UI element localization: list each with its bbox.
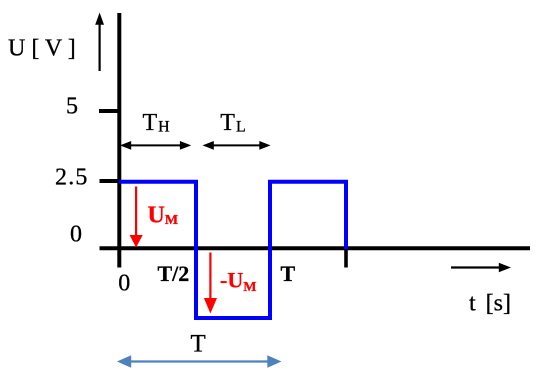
svg-text:U [ V ]: U [ V ] [8,36,76,62]
svg-text:0: 0 [70,222,82,248]
svg-text:T/2: T/2 [158,261,190,286]
svg-text:0: 0 [118,271,130,297]
svg-text:2.5: 2.5 [55,165,89,191]
svg-text:5: 5 [66,94,78,120]
svg-text:TH: TH [143,110,171,136]
svg-text:-UM: -UM [220,267,256,295]
svg-text:TL: TL [220,110,245,136]
svg-text:t [s]: t [s] [469,291,511,317]
svg-text:T: T [281,261,296,286]
svg-text:UM: UM [148,203,179,229]
svg-text:T: T [191,331,206,358]
